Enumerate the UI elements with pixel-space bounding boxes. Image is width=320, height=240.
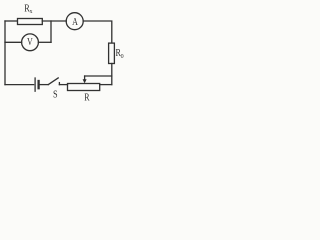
svg-text:A: A — [72, 16, 78, 28]
svg-text:S: S — [53, 89, 58, 100]
wire: battery to switch hinge — [40, 84, 48, 86]
voltmeter V (circle) — [22, 34, 39, 51]
ammeter A (circle) — [66, 13, 83, 30]
switch S blade — [48, 78, 58, 85]
battery negative plate (short thick) — [37, 81, 39, 88]
resistor Rx (box) — [18, 19, 43, 25]
wire: voltmeter branch left (left wire to V) — [5, 41, 22, 43]
wire: top-left from corner to Rx box — [5, 20, 18, 22]
wire: switch to rheostat left edge — [59, 84, 67, 86]
svg-text:V: V — [27, 36, 33, 48]
wire: bottom link from rheostat right edge to right vertical — [100, 84, 112, 86]
wire: wiper horizontal line — [85, 75, 112, 77]
op: wire ammeter right to top-right corner and down right side — [83, 21, 112, 43]
wire: voltmeter branch right (V to vertical) — [38, 41, 51, 43]
svg-text:R: R — [84, 91, 90, 103]
rheostat wiper arrow — [84, 76, 86, 80]
rheostat R (box) — [68, 84, 100, 91]
wire: left side vertical — [4, 21, 6, 85]
svg-text:x: x — [30, 8, 34, 15]
resistor R0 (vertical box) — [109, 43, 115, 63]
wire: below R0 down to bottom link — [111, 64, 113, 85]
node T-junction at x=51 — [50, 21, 52, 42]
svg-text:0: 0 — [121, 54, 124, 60]
battery positive plate (long) — [34, 78, 36, 91]
switch right contact tick — [58, 83, 60, 85]
wire: Rx box to ammeter — [42, 20, 66, 22]
wire: bottom from left corner to battery — [5, 84, 34, 86]
